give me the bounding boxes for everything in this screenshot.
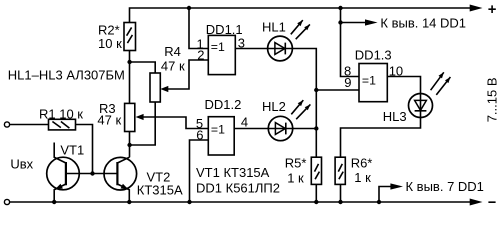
svg-text:3: 3 — [238, 36, 245, 51]
svg-text:К выв. 14 DD1: К выв. 14 DD1 — [380, 16, 466, 31]
svg-text:R4: R4 — [164, 44, 181, 59]
svg-text:47 к: 47 к — [97, 113, 121, 128]
svg-text:6: 6 — [196, 127, 203, 142]
svg-text:9: 9 — [344, 75, 351, 90]
svg-text:1 к: 1 к — [287, 170, 304, 185]
svg-text:47 к: 47 к — [161, 58, 185, 73]
svg-text:Uвх: Uвх — [10, 156, 33, 171]
svg-text:R1 10 к: R1 10 к — [39, 106, 83, 121]
svg-text:VT1: VT1 — [60, 143, 84, 158]
svg-text:HL3: HL3 — [383, 109, 407, 124]
svg-text:DD1 К561ЛП2: DD1 К561ЛП2 — [196, 181, 280, 196]
svg-text:R6*: R6* — [351, 155, 373, 170]
svg-text:VT1 КТ315А: VT1 КТ315А — [196, 165, 270, 180]
svg-text:HL1–HL3 АЛ307БМ: HL1–HL3 АЛ307БМ — [8, 67, 125, 82]
svg-text:2: 2 — [197, 48, 204, 63]
svg-text:=1: =1 — [362, 74, 376, 88]
svg-text:10: 10 — [389, 64, 403, 79]
svg-text:HL2: HL2 — [262, 99, 286, 114]
svg-text:КТ315А: КТ315А — [137, 182, 183, 197]
svg-text:=1: =1 — [211, 40, 225, 54]
svg-text:=1: =1 — [211, 123, 225, 137]
svg-text:7...15 В: 7...15 В — [485, 77, 500, 122]
svg-text:DD1.3: DD1.3 — [355, 47, 392, 62]
svg-text:1 к: 1 к — [354, 170, 371, 185]
svg-text:DD1.2: DD1.2 — [205, 97, 242, 112]
svg-text:R5*: R5* — [285, 155, 307, 170]
svg-text:10 к: 10 к — [98, 36, 122, 51]
svg-text:К выв. 7 DD1: К выв. 7 DD1 — [406, 179, 484, 194]
svg-text:4: 4 — [241, 114, 248, 129]
svg-text:HL1: HL1 — [262, 19, 286, 34]
